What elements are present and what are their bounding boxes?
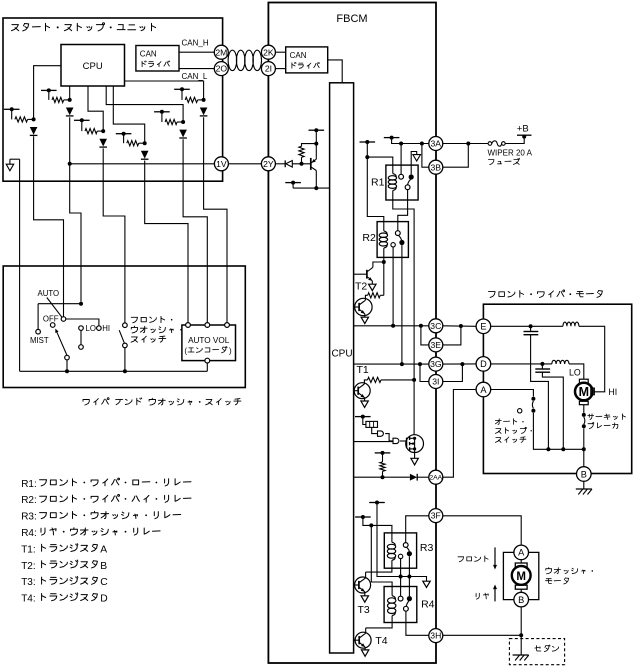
circuit breaker: [582, 413, 586, 417]
connector E: [476, 319, 491, 334]
transistor T3 (circled): [355, 577, 371, 593]
wire capacitor to rail: [531, 335, 549, 450]
svg-text:CAN_H: CAN_H: [182, 39, 209, 48]
circuit breaker label: [588, 414, 633, 420]
transistor (2Y input PNP): [310, 158, 312, 170]
svg-text:OFF: OFF: [43, 315, 59, 324]
connector 1V: [214, 157, 228, 171]
connector 3H: [429, 629, 443, 643]
wire CPU to gate: [354, 441, 393, 443]
svg-text:M: M: [516, 571, 526, 583]
R1 moving contact hook to open arrow: [411, 152, 417, 175]
relay R4 pivot contact: [398, 596, 403, 601]
diode channel 6: [200, 108, 208, 116]
front wiper motor label: [489, 290, 603, 297]
inductor (E line HI): [563, 322, 579, 326]
svg-text:C: C: [100, 577, 108, 588]
wire A to auto-stop switch: [491, 390, 534, 397]
junction rail-washer switch: [123, 369, 127, 373]
svg-text:WIPER 20 A: WIPER 20 A: [488, 148, 533, 157]
ground arrow T4: [361, 650, 368, 656]
relay R3 moving contact: [407, 547, 410, 551]
wire E line: [491, 325, 563, 327]
wire channel 6 to switch: [204, 117, 227, 322]
wire channel 3 to switch: [103, 148, 125, 323]
relay R3 box: [384, 533, 416, 568]
wire fuse to +B: [505, 137, 524, 143]
svg-text:D: D: [480, 359, 487, 369]
diode (2AA output): [410, 474, 417, 481]
svg-text:2K: 2K: [263, 47, 274, 57]
pull-up resistor channel 6: [181, 89, 183, 100]
svg-text:T4: T4: [375, 635, 387, 647]
wire CPU to 3G: [354, 363, 429, 365]
wire R3 moving to rail and R4: [408, 556, 410, 596]
pull-up resistor channel 3: [81, 120, 83, 131]
wire CPU to channel 1: [34, 66, 61, 120]
svg-text:R1:: R1:: [21, 479, 37, 490]
diode channel 4: [141, 151, 149, 159]
relay R3 pivot contact: [403, 543, 408, 548]
wire 2AA to wiper motor A: [443, 390, 476, 478]
CPU box (start-stop unit): [61, 45, 125, 87]
svg-text:T2:: T2:: [21, 561, 35, 572]
wire 3A to fuse: [443, 143, 488, 145]
transistor T2 (circled): [355, 298, 372, 315]
svg-text:FBCM: FBCM: [336, 13, 367, 25]
svg-text:1V: 1V: [216, 159, 227, 169]
wire auto-stop to rail: [533, 413, 583, 449]
connector 3C: [429, 319, 443, 333]
CAN driver box (start-stop unit): [136, 46, 179, 72]
ground arrow T1: [361, 401, 368, 407]
junction washer-3H-ground: [519, 633, 523, 637]
+B terminal: [522, 135, 526, 139]
wiper switch arm to AUTO: [47, 298, 62, 318]
svg-text:3G: 3G: [430, 359, 442, 369]
connector 2M: [214, 45, 228, 59]
auto-stop switch label: [495, 419, 523, 425]
supply stub (gate driver): [355, 416, 371, 418]
front washer switch: [123, 323, 128, 328]
resistor T1 collector: [368, 377, 382, 382]
svg-text:CAN: CAN: [290, 51, 307, 60]
pull-up supply stub channel 2: [41, 89, 57, 91]
start-stop unit title: [11, 23, 155, 31]
junction channel 4: [143, 141, 147, 145]
svg-text:A: A: [100, 544, 107, 555]
connector B (washer motor): [514, 592, 529, 607]
pull-up resistor channel 4: [123, 134, 125, 144]
junction 3A-3B link: [420, 142, 424, 146]
wire channel 5 to switch: [183, 139, 207, 322]
svg-text:3H: 3H: [430, 631, 441, 641]
front wiper motor box: [483, 304, 631, 473]
junction T1-R1 coil rail: [412, 378, 416, 382]
relay R3 coil: [387, 542, 395, 560]
junction rail-capD: [561, 447, 565, 451]
relay R1 pivot contact: [399, 174, 404, 179]
wire 2Y to diode: [275, 163, 285, 165]
svg-text:3E: 3E: [431, 340, 442, 350]
wire channel 4 to switch: [145, 161, 188, 323]
connector 3E: [429, 338, 443, 352]
wire R3 coil to T3: [366, 560, 392, 572]
svg-text:T1:: T1:: [21, 544, 35, 555]
wiper switch LO contact: [79, 326, 84, 331]
relay R2 moving contact: [399, 240, 404, 245]
junction resistor-rail: [314, 142, 318, 146]
resistor 2AA pull-up: [382, 453, 384, 462]
wire channel 2 to switch: [70, 117, 81, 302]
relay R1 moving contact: [409, 174, 414, 179]
pull-up resistor channel 1: [11, 109, 13, 119]
supply stub (collector rail): [285, 182, 301, 184]
wire 3C to E: [443, 325, 476, 328]
wire 3G to D: [443, 363, 476, 365]
diode channel 2: [66, 108, 74, 116]
wire ground to switch rail: [19, 159, 21, 371]
auto-stop switch NC contact: [518, 409, 522, 413]
supply rail to emitter: [315, 130, 317, 158]
svg-text:2I: 2I: [265, 64, 272, 74]
svg-text:B: B: [518, 595, 524, 605]
junction coils feed: [369, 523, 373, 527]
svg-text:R2: R2: [362, 232, 376, 244]
svg-text:R4:: R4:: [21, 528, 37, 539]
wire R3 pivot to 3F: [406, 516, 429, 543]
pull-up resistor (2Y): [301, 157, 303, 164]
washer motor M: [520, 560, 522, 563]
wiper switch HI contact: [97, 326, 102, 331]
svg-text:CPU: CPU: [83, 61, 103, 72]
wiper switch OFF contact: [61, 317, 66, 322]
connector 3B: [429, 160, 443, 174]
relay R2 pivot contact: [395, 231, 400, 236]
connector B (wiper motor): [577, 467, 592, 482]
svg-text:3F: 3F: [431, 511, 441, 521]
relay R3 NC contact: [398, 554, 402, 558]
relay R2 NC contact: [391, 243, 395, 247]
supply stub (washer contacts): [369, 502, 385, 504]
svg-text:R3: R3: [420, 542, 434, 554]
diode channel 1: [30, 127, 38, 135]
junction channel 6: [202, 98, 206, 102]
wire CAN driver to CPU (FBCM): [328, 60, 343, 83]
relay R4 NC contact: [404, 606, 409, 611]
wire MOSFET source to ground arrow: [414, 449, 416, 458]
svg-text:CPU: CPU: [331, 349, 352, 360]
junction 1V-channel2: [68, 162, 72, 166]
wire 1V line: [70, 163, 215, 165]
ground arrow T2: [361, 317, 368, 323]
svg-text:R2:: R2:: [21, 495, 37, 506]
junction rail-B: [582, 447, 586, 451]
switch box label: [83, 398, 241, 405]
label sedan: [535, 645, 559, 652]
junction E-capacitor: [529, 324, 533, 328]
connector 3A: [429, 137, 443, 151]
MOSFET (circled): [406, 435, 424, 453]
wiper motor M: [579, 379, 588, 383]
supply stub B (3A rail): [384, 137, 400, 139]
svg-text:AUTO VOL: AUTO VOL: [188, 336, 230, 345]
junction 3A-R1 contact: [399, 142, 403, 146]
svg-text:2Y: 2Y: [263, 159, 274, 169]
svg-text:D: D: [100, 594, 107, 605]
svg-text:AUTO: AUTO: [38, 289, 60, 298]
supply stub (2Y transistor): [309, 129, 325, 131]
wire to R2 coil: [367, 157, 384, 231]
svg-text:R3:: R3:: [21, 512, 37, 523]
svg-text:R1: R1: [371, 177, 385, 189]
wire to R1 fixed contact: [400, 144, 402, 175]
connector A (washer motor): [514, 545, 529, 560]
connector 2O: [214, 62, 228, 76]
wire 1V to 2Y: [228, 163, 261, 165]
supply stub (2AA): [375, 452, 391, 454]
fuse WIPER 20A: [488, 142, 492, 146]
washer motor label: [546, 568, 593, 574]
wire D line: [491, 363, 552, 365]
wire CPU to 3C: [354, 325, 429, 327]
svg-text:3C: 3C: [430, 321, 441, 331]
relay R1 box: [386, 165, 418, 200]
transistor T4 (circled): [355, 632, 371, 648]
svg-text:T1: T1: [357, 364, 369, 376]
wire CPU to 2AA: [354, 476, 410, 478]
junction 3C-3E right loop: [459, 324, 463, 328]
wire CPU to channel 6: [125, 81, 204, 100]
connector 3I: [429, 375, 443, 389]
pull-up supply stub channel 1: [4, 108, 20, 110]
capacitor (D line): [541, 364, 543, 369]
svg-text:+B: +B: [517, 123, 529, 134]
wire motor to circuit breaker: [583, 405, 585, 413]
ground arrow T2 driver: [369, 284, 376, 290]
wiper switch lower contact below LO: [80, 330, 82, 344]
svg-text:A: A: [480, 385, 487, 395]
start-stop unit box: [3, 18, 223, 181]
wire 3E left loop: [421, 326, 429, 345]
svg-text:): ): [229, 347, 232, 356]
wire 3A rail: [392, 138, 429, 144]
wire washer B to 3H: [520, 607, 522, 635]
pull-up resistor channel 5: [161, 112, 163, 122]
wire contact supply rail: [377, 503, 427, 582]
wire inductor to LO brush: [569, 364, 584, 379]
wiper and washer switch box: [3, 266, 245, 388]
CAN driver box (FBCM): [286, 47, 328, 73]
connector 2I: [261, 62, 275, 76]
svg-text:2AA: 2AA: [429, 475, 442, 482]
svg-text:(: (: [184, 347, 187, 356]
resistor T2 base: [380, 294, 384, 296]
wire R2 moving contact to 3G rail: [401, 245, 403, 364]
junction channel 1: [32, 117, 36, 121]
junction channel 2: [68, 98, 72, 102]
svg-text:HI: HI: [102, 324, 110, 333]
diode channel 5: [179, 130, 187, 138]
junction 2AA-resistor: [381, 475, 385, 479]
wire inductor to HI brush: [579, 326, 605, 392]
junction R3NC-R4 pivot rail: [399, 575, 403, 579]
junction fuse-3B: [466, 142, 470, 146]
wire channel 1 to switch: [34, 136, 64, 316]
svg-text:3I: 3I: [432, 377, 439, 387]
gate buffer 2: [385, 434, 393, 441]
wire to R3 coil: [363, 517, 392, 542]
wire R4 NC to 3H: [406, 611, 429, 635]
wire 3B loop: [443, 144, 469, 168]
junction 3G-R2 moving: [400, 362, 404, 366]
wire rail to MOSFET: [413, 380, 415, 435]
svg-text:CAN: CAN: [140, 50, 157, 59]
svg-text:2M: 2M: [215, 47, 227, 57]
twisted pair CAN bus: [228, 50, 261, 70]
wiper switch MIST contact: [36, 329, 41, 334]
connector 2AA: [429, 470, 443, 484]
relay R4 moving contact: [407, 596, 412, 601]
wire collector to CPU: [315, 171, 317, 189]
svg-text:R4: R4: [421, 598, 435, 610]
wire CPU to channel 4: [113, 86, 144, 143]
front washer switch label: [131, 316, 172, 323]
wire 2I to CAN driver: [275, 68, 285, 70]
diode D (2Y input): [284, 160, 286, 167]
svg-text:M: M: [579, 385, 589, 399]
junction base-resistor: [300, 162, 304, 166]
relay R2 box: [377, 222, 408, 258]
wire OFF to HI: [66, 319, 99, 326]
junction coil feed: [365, 155, 369, 159]
ground arrow T3: [361, 596, 368, 602]
wire CPU to channel 3: [88, 86, 103, 131]
supply stub (washer coils): [355, 516, 371, 518]
ground arrow (start-stop unit): [10, 158, 20, 160]
wire CAN_L: [179, 68, 214, 70]
svg-text:3B: 3B: [431, 162, 442, 172]
wiper switch second pole contact: [50, 323, 55, 328]
wire R1 coil to rail: [393, 191, 414, 380]
connector A (wiper motor): [476, 382, 491, 397]
svg-text:A: A: [518, 548, 525, 558]
AUTO VOL top pins: [186, 323, 191, 328]
wire capacitor2 to rail: [542, 372, 563, 449]
relay R2 coil: [379, 231, 387, 248]
wire 3B link: [422, 144, 429, 168]
wire R1 contact to R2: [398, 190, 408, 231]
junction R3 moving-R4 moving rail: [407, 575, 411, 579]
wire R2 NC to 3C rail: [392, 247, 394, 326]
wire R2 coil down: [383, 248, 385, 262]
pull-up resistor channel 2: [48, 90, 50, 100]
junction 3G-3I loop: [418, 362, 422, 366]
ground (sedan): [520, 635, 522, 655]
svg-text:LO: LO: [86, 324, 96, 333]
wire R4 coil to T4: [366, 616, 392, 628]
label rear arrow: [476, 593, 488, 599]
AUTO VOL encoder box: [182, 325, 236, 361]
transistor T2 driver: [354, 273, 367, 275]
CPU box (FBCM): [330, 83, 354, 653]
svg-text:T3: T3: [358, 604, 370, 616]
junction 3G-3I right loop: [460, 362, 464, 366]
svg-text:B: B: [581, 469, 587, 479]
junction channel2-MIST line: [79, 302, 83, 306]
connector 3F: [429, 509, 443, 523]
capacitor (E line): [530, 326, 532, 331]
wire to R4 coil: [371, 525, 392, 595]
pull-up supply stub channel 5: [154, 111, 170, 113]
junction rail-arm2: [65, 369, 69, 373]
wire MIST branch: [38, 303, 81, 305]
wire CPU to channel 2: [69, 86, 71, 100]
junction D-capacitor: [540, 362, 544, 366]
wire 2K to CAN driver: [275, 51, 285, 53]
auto-stop switch: [531, 397, 535, 401]
relay R4 box: [384, 587, 417, 623]
inductor (D line LO): [552, 360, 569, 364]
wire diode to base: [292, 163, 311, 165]
junction rail-capE: [546, 447, 550, 451]
wire R3 NC to R4 pivot: [400, 559, 402, 597]
transistor T1 (circled): [354, 383, 370, 399]
wire rail to B: [583, 449, 585, 466]
switch ground rail: [20, 370, 208, 372]
washer motor bracket: [503, 552, 514, 599]
junction channel 3: [101, 129, 105, 133]
svg-text:CAN_L: CAN_L: [182, 72, 208, 81]
label front arrow: [458, 556, 488, 562]
ground arrow MOSFET: [411, 458, 418, 465]
junction R2 coil-T2 collector: [382, 260, 386, 264]
FBCM box: [268, 3, 436, 664]
AUTO VOL bottom pin: [205, 358, 210, 363]
svg-text:2O: 2O: [216, 64, 228, 74]
pull-up supply stub channel 4: [116, 133, 132, 135]
junction 3C-R2NC: [391, 324, 395, 328]
svg-text:3A: 3A: [431, 139, 442, 149]
gate driver block: [363, 417, 366, 425]
svg-text:T4:: T4:: [21, 594, 35, 605]
svg-text:T2: T2: [355, 280, 367, 292]
wiper switch second arm: [57, 331, 68, 355]
wire CPU to channel 5: [106, 86, 183, 122]
pull-up supply stub channel 3: [74, 119, 90, 121]
connector D: [476, 357, 491, 372]
wire to R1 coil: [367, 157, 393, 174]
wire 3E right loop: [443, 326, 461, 345]
connector 2Y: [261, 157, 275, 171]
connector 2K: [261, 45, 275, 59]
relay R1 lower contact: [405, 185, 410, 190]
ground (wiper motor): [576, 488, 592, 490]
junction collector rail: [314, 186, 318, 190]
relay R4 coil: [388, 596, 396, 616]
wire 3I right loop: [443, 364, 463, 381]
supply stub A (R1 coil feed): [360, 141, 376, 143]
svg-text:LO: LO: [569, 368, 581, 378]
svg-text:MIST: MIST: [30, 336, 49, 345]
gate buffer 1: [372, 427, 378, 433]
junction channel 5: [181, 120, 185, 124]
sedan dashed box: [509, 639, 564, 665]
pull-up supply stub channel 6: [174, 88, 190, 90]
wire CAN_H: [179, 51, 214, 53]
svg-text:HI: HI: [608, 387, 617, 397]
diode channel 3: [99, 139, 107, 147]
